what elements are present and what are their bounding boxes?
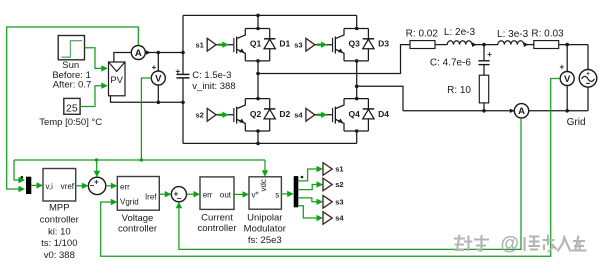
wire vdc to modulator: [264, 160, 266, 173]
svg-text:controller: controller: [118, 223, 157, 234]
diode D1: [269, 29, 271, 39]
wire R0.02 to L1: [435, 44, 447, 46]
emitter bracket Q4: [344, 130, 368, 132]
svg-text:vdc: vdc: [259, 179, 268, 191]
svg-text:ki: 10: ki: 10: [48, 226, 71, 237]
sample time dot mux: [21, 176, 24, 179]
svg-text:v*: v*: [252, 190, 259, 199]
arrow into demux: [287, 191, 294, 197]
svg-text:+: +: [152, 63, 157, 72]
svg-text:R: 0.03: R: 0.03: [531, 29, 564, 40]
svg-text:s3: s3: [294, 40, 302, 49]
node PV minus: [157, 101, 161, 105]
collector bracket Q2: [245, 98, 269, 100]
svg-text:Q1: Q1: [250, 39, 262, 49]
wire leg stub above Q3: [356, 15, 358, 28]
wire vdc to sum1: [96, 160, 98, 174]
AC voltage source Grid: [579, 70, 597, 88]
junction damping branch top: [482, 43, 486, 47]
svg-text:V: V: [155, 73, 162, 84]
wire MPP to sum1: [76, 185, 85, 187]
svg-text:Q3: Q3: [349, 39, 361, 49]
wire L1 to L2: [472, 44, 498, 46]
voltmeter V1: [151, 71, 165, 85]
arrow into sum1 left: [82, 183, 89, 189]
emitter bracket Q2: [245, 130, 269, 132]
mux measurements: [26, 177, 31, 194]
junction bottom rail leg1: [256, 142, 260, 146]
wire DC rail lower segment: [182, 78, 184, 143]
svg-text:v0: 388: v0: 388: [44, 250, 75, 261]
wire node to DC link rail top: [158, 52, 183, 54]
svg-text:Current: Current: [201, 213, 233, 224]
svg-text:A: A: [135, 48, 142, 59]
wire grid current feedback: [179, 118, 521, 249]
wire sum1 to voltage controller: [106, 185, 114, 187]
arrow into sum2 bottom: [176, 202, 182, 209]
ammeter A2 grid current: [514, 104, 528, 118]
voltmeter V2 grid: [560, 72, 574, 86]
svg-text:Modulator: Modulator: [244, 224, 286, 235]
svg-text:v,i: v,i: [46, 182, 54, 191]
svg-text:+: +: [586, 70, 590, 77]
PV array block: [109, 62, 126, 96]
demux gate signals: [294, 176, 299, 207]
arrow into voltage controller err: [111, 183, 118, 189]
svg-text:Unipolar: Unipolar: [247, 213, 282, 224]
svg-text:C: 4.7e-6: C: 4.7e-6: [430, 58, 472, 69]
svg-text:vref: vref: [61, 182, 75, 191]
wire bottom rail to grid ammeter: [403, 110, 514, 112]
svg-text:s1: s1: [196, 40, 204, 49]
current controller block: [200, 177, 234, 210]
wire R0.03 to grid: [559, 44, 588, 46]
wire leg stub below Q2: [257, 131, 259, 143]
wire bridge bottom rail: [183, 142, 357, 144]
junction collector Q1: [256, 27, 260, 31]
junction emitter Q3: [355, 59, 359, 63]
wire DC rail upper segment: [182, 15, 184, 73]
svg-text:+: +: [559, 63, 564, 72]
svg-text:Vgrid: Vgrid: [120, 197, 139, 206]
junction damping branch bottom: [482, 109, 486, 113]
wire demux to goto s3: [298, 198, 318, 202]
arrow into sum2 left: [165, 191, 172, 197]
junction collector Q2: [256, 97, 260, 101]
current direction arrow A2: [510, 109, 515, 113]
arrow into MPP controller: [37, 182, 44, 188]
svg-text:s2: s2: [196, 111, 204, 120]
from tag triangle s3: [306, 38, 315, 51]
svg-text:+: +: [175, 67, 180, 76]
wire 25 to PV input: [80, 86, 101, 107]
arrow into Vgrid input: [111, 199, 118, 205]
wire current controller to modulator: [234, 193, 245, 195]
resistor R 0.02: [410, 41, 435, 49]
junction top rail leg1: [256, 14, 260, 18]
collector bracket Q1: [245, 28, 269, 30]
svg-text:D3: D3: [378, 39, 389, 49]
wire mux to MPP controller: [31, 184, 38, 186]
diode D2: [269, 99, 271, 109]
wire sum2 to current controller: [187, 193, 197, 195]
svg-text:−: −: [90, 181, 95, 190]
wire grid voltmeter bottom: [566, 86, 568, 111]
arrow into mux voltage input: [19, 177, 26, 183]
junction emitter Q1: [256, 59, 260, 63]
wire vdc bus: [14, 159, 265, 161]
goto tag s2: [323, 178, 332, 191]
svg-text:out: out: [220, 191, 232, 200]
arrow into goto s2: [317, 181, 324, 187]
svg-text:v_init: 388: v_init: 388: [192, 81, 235, 92]
watermark zhihu: [454, 235, 489, 252]
wire bridge top rail: [183, 14, 357, 16]
gate wire Q1: [216, 44, 233, 46]
svg-text:+: +: [487, 50, 492, 59]
svg-text:+: +: [94, 178, 99, 187]
step source block Sun: [58, 36, 84, 60]
sum junction sum1: [88, 177, 105, 194]
arrow into current controller err: [194, 191, 201, 197]
wire leg stub above Q4: [356, 86, 358, 98]
svg-text:−: −: [177, 194, 182, 203]
resistor R 0.03: [534, 41, 559, 49]
gate drive arrow s3: [317, 44, 323, 46]
diode D3: [367, 29, 369, 39]
wire PV plus to ammeter: [114, 53, 131, 63]
svg-text:Q4: Q4: [349, 109, 361, 119]
wire capacitor to R10: [483, 65, 485, 75]
arrow into goto s1: [317, 166, 324, 172]
svg-text:s: s: [275, 190, 279, 199]
arrow into PV temperature input: [101, 83, 108, 89]
svg-text:R: 10: R: 10: [447, 85, 471, 96]
junction right leg midpoint: [355, 85, 359, 89]
from tag triangle s2: [207, 108, 216, 121]
gate wire Q4: [315, 114, 332, 116]
svg-text:@: @: [501, 234, 520, 255]
svg-text:MPP: MPP: [49, 202, 70, 213]
node PV plus: [157, 51, 161, 55]
svg-text:s1: s1: [335, 165, 343, 174]
goto tag s3: [323, 196, 332, 209]
junction collector Q3: [355, 27, 359, 31]
wire to damping capacitor: [483, 45, 485, 61]
junction emitter Q2: [256, 129, 260, 133]
wire demux to goto s1: [298, 169, 318, 181]
junction grid voltmeter top: [565, 43, 569, 47]
transistor Q1: [233, 38, 234, 52]
arrow into goto s4: [317, 215, 324, 221]
wire grid source bottom: [587, 87, 589, 111]
gate wire Q2: [216, 114, 233, 116]
step icon: [62, 41, 83, 58]
svg-text:Grid: Grid: [567, 117, 586, 128]
transistor Q3: [332, 38, 333, 52]
svg-text:controller: controller: [40, 214, 79, 225]
transistor Q2: [233, 108, 234, 122]
svg-text:s4: s4: [294, 111, 303, 120]
arrow into sum1 top: [94, 171, 100, 178]
current direction arrow A1: [146, 50, 151, 54]
wire to grid voltmeter top: [566, 45, 568, 72]
wire PV current feedback loop: [7, 27, 139, 189]
svg-text:err: err: [203, 191, 213, 200]
svg-text:Temp [0:50] °C: Temp [0:50] °C: [39, 117, 102, 128]
junction DC plus rail: [181, 51, 185, 55]
transistor Q4: [332, 108, 333, 122]
svg-text:PV: PV: [110, 75, 123, 86]
constant block 25: [64, 98, 80, 114]
wire Sun to PV input: [85, 48, 102, 69]
wire PV voltage measurement: [141, 78, 151, 160]
arrow into mux current input: [19, 186, 26, 192]
junction emitter Q4: [355, 129, 359, 133]
junction DC minus rail: [181, 101, 185, 105]
collector bracket Q3: [344, 28, 368, 30]
svg-text:Voltage: Voltage: [122, 213, 154, 224]
wire bridge output left leg to filter: [258, 45, 410, 74]
wire leg stub above Q2: [257, 74, 259, 99]
svg-text:D4: D4: [378, 109, 389, 119]
junction collector Q4: [355, 97, 359, 101]
gate drive arrow s1: [218, 44, 224, 46]
voltage controller block: [117, 177, 159, 211]
wire demux to goto s2: [298, 185, 318, 190]
svg-text:L: 3e-3: L: 3e-3: [497, 29, 529, 40]
wire modulator to demux: [281, 193, 290, 195]
svg-text:L: 2e-3: L: 2e-3: [444, 27, 476, 38]
junction grid voltmeter bottom: [565, 109, 569, 113]
svg-text:A: A: [518, 106, 525, 117]
wire voltmeter V1 to DC minus: [157, 85, 159, 102]
ammeter A1: [131, 46, 145, 60]
wire grid voltage feedback: [101, 79, 561, 257]
sine symbol: [582, 76, 595, 81]
wire grid ammeter to grid source: [529, 110, 588, 112]
arrow into PV irradiance input: [101, 65, 108, 71]
diode D4: [367, 99, 369, 109]
svg-text:s3: s3: [335, 198, 343, 207]
svg-text:Q2: Q2: [250, 109, 262, 119]
wire leg stub below Q4: [356, 131, 358, 143]
wire PV minus to node: [111, 96, 159, 103]
svg-text:D1: D1: [279, 39, 290, 49]
collector bracket Q4: [344, 98, 368, 100]
sample time dot demux: [301, 176, 304, 179]
wire ammeter to DC node: [145, 52, 158, 54]
wire R10 to bottom rail: [483, 103, 485, 111]
wire leg stub below Q3: [356, 61, 358, 86]
svg-text:After: 0.7: After: 0.7: [53, 79, 92, 90]
svg-text:err: err: [120, 183, 130, 192]
junction left leg midpoint: [256, 72, 260, 76]
junction vdc bus V1: [140, 158, 143, 161]
svg-text:V: V: [564, 74, 571, 85]
svg-text:s4: s4: [335, 214, 344, 223]
svg-text:25: 25: [66, 103, 78, 115]
goto tag s4: [323, 212, 332, 225]
wire voltage controller to sum2: [159, 193, 168, 195]
wire node down to voltmeter V1: [157, 53, 159, 72]
wire node to DC link rail bottom: [158, 101, 183, 103]
svg-text:fs: 25e3: fs: 25e3: [248, 235, 282, 246]
MPP controller block: [43, 169, 76, 202]
arrow into goto s3: [317, 199, 324, 205]
gate drive arrow s4: [317, 114, 323, 116]
svg-text:C: 1.5e-3: C: 1.5e-3: [192, 70, 231, 81]
emitter bracket Q3: [344, 60, 368, 62]
gate drive arrow s2: [218, 114, 224, 116]
junction vdc bus sum branch: [95, 158, 98, 161]
from tag triangle s4: [306, 108, 315, 121]
wire L2 to R0.03: [524, 44, 534, 46]
wire leg stub above Q1: [257, 15, 259, 28]
resistor R 10: [479, 75, 488, 103]
wire demux to goto s4: [298, 206, 318, 218]
svg-text:controller: controller: [197, 223, 236, 234]
gate wire Q3: [315, 44, 332, 46]
capacitor C 1.5e-3: [177, 73, 190, 75]
svg-text:R: 0.02: R: 0.02: [406, 29, 439, 40]
wire bridge output right leg down: [357, 86, 403, 111]
svg-text:Iref: Iref: [145, 192, 157, 201]
svg-text:s2: s2: [335, 180, 343, 189]
svg-text:ts: 1/100: ts: 1/100: [41, 238, 77, 249]
goto tag s1: [323, 163, 332, 176]
capacitor C 4.7e-6: [478, 60, 489, 62]
wire grid source top: [587, 45, 589, 70]
svg-text:D2: D2: [279, 109, 290, 119]
from tag triangle s1: [207, 38, 216, 51]
emitter bracket Q1: [245, 60, 269, 62]
wire vdc to mux: [14, 160, 22, 180]
arrow into modulator vdc: [262, 170, 268, 177]
unipolar modulator block: [249, 177, 281, 209]
arrow into modulator v*: [243, 191, 250, 197]
sum junction sum2: [171, 187, 186, 202]
wire leg stub below Q1: [257, 61, 259, 74]
